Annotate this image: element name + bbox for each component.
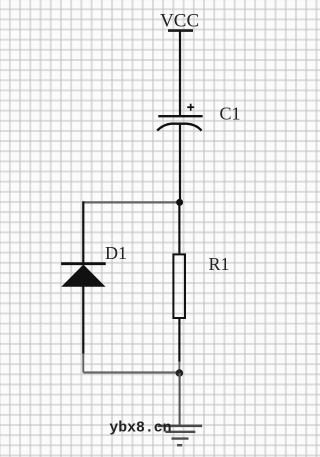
ground bar 3 — [172, 437, 189, 439]
svg-text:C1: C1 — [220, 104, 241, 124]
junction node A — [176, 199, 183, 206]
diode D1 cathode bar — [61, 262, 106, 265]
wire D1 to bottom (gray part) — [82, 354, 84, 373]
ground bar 1 — [158, 425, 203, 428]
wire VCC to C1 — [179, 31, 181, 117]
ground bar 2 — [165, 431, 195, 433]
wire node B to ground — [179, 373, 181, 426]
svg-text:VCC: VCC — [160, 11, 199, 32]
capacitor C1 plus sign — [187, 104, 194, 111]
wire top horizontal (node A to left branch) — [83, 201, 179, 203]
wire node A to R1 — [178, 202, 180, 253]
svg-text:D1: D1 — [105, 243, 127, 263]
wire R1 to node B (black part) — [178, 318, 180, 361]
power rail bar VCC — [168, 29, 193, 32]
junction node B — [176, 369, 184, 377]
wire bottom horizontal (left branch to node B) — [83, 371, 179, 373]
svg-text:ybx8.cn: ybx8.cn — [109, 420, 171, 436]
resistor R1 body — [173, 254, 185, 318]
wire R1 to node B (gray part) — [178, 362, 180, 374]
capacitor C1 top plate — [158, 115, 202, 117]
diode D1 triangle — [63, 265, 105, 286]
svg-text:R1: R1 — [209, 254, 230, 274]
capacitor C1 bottom curved plate — [157, 124, 201, 131]
ground tick — [177, 444, 182, 446]
wire C1 to node A — [179, 124, 181, 203]
wire D1 to bottom (black part) — [82, 286, 84, 354]
wire left branch upper (corner to D1) — [82, 201, 84, 263]
